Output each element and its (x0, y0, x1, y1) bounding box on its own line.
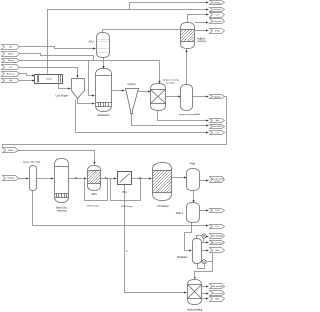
svg-text:Drying: Drying (46, 79, 51, 81)
svg-text:Exhaust: Exhaust (214, 8, 222, 11)
wire cyclone out to scrubber (138, 91, 151, 93)
wire dryer drain to lock hopper (59, 83, 71, 89)
wire hydrocracker to diesel flag 2 (202, 293, 209, 295)
wire filter drain to purge flag (33, 191, 209, 226)
output flag exhaust (210, 8, 225, 12)
wire branch to Exhaust flag (130, 9, 209, 11)
svg-text:Water: Water (8, 149, 14, 152)
vessel FT reactor (153, 163, 172, 201)
output flag flue gas (210, 19, 225, 24)
svg-text:CO₂: CO₂ (215, 15, 219, 17)
output flag wax 2 (210, 297, 225, 302)
wire cyclone drain to tar flag (132, 113, 209, 126)
svg-text:Syngas filter GAC: Syngas filter GAC (23, 161, 41, 164)
wire condenser downcomer (203, 239, 205, 243)
vessel syngas cleaning AGR (181, 85, 193, 111)
wire flue gas line (195, 22, 209, 24)
svg-text:ASU: ASU (89, 41, 94, 44)
svg-text:Flash 2: Flash 2 (176, 213, 184, 215)
wire AGR out to syngas flag (193, 96, 209, 98)
svg-text:Distillation: Distillation (177, 256, 188, 259)
output flag jet fuel 1 (210, 234, 225, 239)
input flag water to WGS (3, 148, 19, 153)
wire Water flag joining steam line (20, 54, 94, 61)
hatch WGS (88, 171, 101, 184)
wire reboiler loop (198, 264, 205, 269)
condenser pump (202, 234, 206, 238)
wire syngas recycle loop (3, 97, 227, 148)
wire scrubber drain to waste flag (158, 111, 209, 121)
wire distillation to wax flag (202, 250, 209, 252)
svg-text:CO₂: CO₂ (215, 226, 219, 228)
svg-text:Biomass: Biomass (7, 74, 15, 76)
svg-text:Steam CH₄: Steam CH₄ (56, 207, 67, 210)
output flag wax 1 (210, 248, 225, 253)
svg-text:Jet fuel/Np: Jet fuel/Np (212, 285, 223, 288)
svg-text:LPG: LPG (215, 210, 220, 212)
svg-text:Syngas cleaning AGR: Syngas cleaning AGR (179, 113, 201, 116)
output flag ash (210, 119, 225, 123)
svg-text:Steam: Steam (8, 59, 14, 62)
wire PSA hydrogen to hydrocracker (125, 185, 187, 293)
svg-text:Hydrocracking: Hydrocracking (187, 309, 203, 312)
wire gasifier out to cyclone (112, 90, 125, 92)
wire FT out to flash (172, 177, 187, 179)
vessel gasifier (96, 69, 112, 112)
svg-text:WGS Purge: WGS Purge (121, 205, 133, 208)
output flag syngas (210, 95, 225, 99)
vessel distillation column (193, 239, 202, 264)
svg-text:Tar & Ash: Tar & Ash (213, 125, 223, 128)
svg-text:PSA: PSA (122, 191, 127, 194)
svg-text:Cyclone: Cyclone (128, 84, 137, 86)
internals scrubber X (151, 90, 166, 104)
input flag air to ASU (2, 45, 20, 50)
wire reboiler to hydrocracker (195, 251, 213, 279)
svg-text:syngas: syngas (214, 181, 221, 183)
svg-text:WGS: WGS (91, 194, 97, 196)
svg-text:Sulphur: Sulphur (197, 37, 205, 40)
svg-text:scrubber: scrubber (166, 81, 175, 84)
svg-text:Syngas: Syngas (7, 178, 14, 180)
wire PSA out to FT reactor (132, 178, 152, 180)
svg-text:FT Reactor: FT Reactor (157, 205, 169, 208)
vessel flash 1 (187, 169, 200, 191)
wire hydrocracker to wax flag 2 (202, 298, 209, 300)
svg-text:Sulfur: Sulfur (215, 31, 221, 33)
internals hydrocracker X (188, 285, 202, 299)
svg-text:H₂: H₂ (126, 250, 128, 252)
svg-text:Syngas cleaning: Syngas cleaning (163, 80, 180, 82)
wire distillation top to condenser (197, 236, 202, 239)
output flag diesel 2 (210, 291, 225, 296)
svg-text:Lock Hopper: Lock Hopper (56, 94, 69, 97)
wire WGS purge loop 1 (85, 179, 108, 201)
wire flash 2 bottoms to distillation (185, 223, 192, 251)
svg-text:Nitrogen: Nitrogen (213, 1, 222, 4)
output flag unconverted syngas (210, 177, 225, 183)
output flag purge CO2 (210, 225, 225, 229)
arrow after PSA (139, 177, 141, 179)
wire filter to reformer (37, 178, 54, 180)
wire flash overhead to unconverted syngas flag (200, 180, 209, 182)
vessel ASU column (97, 33, 110, 58)
vessel steam reformer (55, 159, 69, 203)
wire syngas flag to filter (19, 178, 29, 180)
wire scrubber out to AGR (166, 96, 181, 98)
input flag air to dryer (2, 79, 20, 83)
wire Steam flag to scrubber top (20, 61, 160, 84)
wire condenser to jet fuel flag (207, 236, 209, 238)
arrow into hydrocracker top (194, 277, 196, 279)
reboiler pump (202, 260, 206, 264)
output flag diesel 1 (210, 241, 225, 245)
wire WGS out to PSA (101, 178, 117, 180)
svg-text:Diesel fuel: Diesel fuel (213, 242, 224, 244)
wire sulphur recovery to sulfur flag (195, 30, 209, 32)
wire ASU bottom O2 to gasifier top (103, 58, 105, 69)
wire AGR top to sulphur recovery bottom (186, 50, 188, 85)
input flag syngas (3, 176, 19, 181)
wire sulphur recovery top to CO2 flag (188, 15, 209, 23)
output flag CO2 bottom (210, 131, 225, 135)
output flag CO2 top (210, 13, 225, 18)
arrow on WGS outlet (105, 177, 107, 179)
heat exchanger PSA (118, 172, 132, 185)
output flag sulfur (210, 29, 225, 34)
vessel drying drum (35, 75, 63, 84)
wire water flag to WGS top (19, 151, 95, 165)
wire ASU top to sulphur recovery (103, 30, 181, 33)
wire CO2 flag to lock hopper top (20, 68, 78, 78)
svg-text:Gasification: Gasification (97, 114, 110, 117)
svg-text:Water: Water (8, 53, 14, 56)
vessel flash 2 (187, 203, 200, 223)
vessel lock hopper (72, 79, 85, 99)
input flag CO2 (2, 65, 20, 70)
input flag steam (2, 59, 20, 63)
svg-text:Air: Air (9, 79, 12, 82)
hatch FT reactor (153, 171, 172, 193)
wire steam branch to gasifier (89, 61, 95, 96)
vessel cyclone (126, 89, 139, 114)
svg-text:WGS Purge: WGS Purge (87, 205, 99, 208)
vessel WGS reactor (88, 166, 101, 191)
vessel syngas scrubber (151, 84, 166, 111)
output flag tar and ash (210, 125, 225, 129)
wire flash bottoms to flash 2 (193, 191, 195, 203)
wire WGS purge loop 2 (111, 179, 141, 201)
svg-text:CO₂: CO₂ (9, 67, 13, 69)
wire Biomass flag to dryer (20, 74, 35, 76)
wire lock hopper stem to gasifier (78, 99, 95, 104)
svg-text:Flue gas: Flue gas (213, 21, 221, 23)
svg-text:recovery: recovery (197, 40, 207, 43)
svg-text:Flash: Flash (190, 164, 196, 166)
hatch sulphur recovery (181, 30, 195, 42)
svg-text:Syngas: Syngas (214, 96, 221, 98)
input flag biomass (2, 72, 20, 77)
output flag nitrogen (210, 1, 225, 5)
svg-text:reforming: reforming (57, 209, 67, 212)
output flag LPG (210, 209, 225, 213)
wire lock hopper drain to ash flag (76, 100, 209, 133)
wire flash 2 overhead to LPG flag (200, 210, 209, 212)
wire Air flag to ASU (20, 47, 96, 49)
svg-text:Air: Air (9, 46, 12, 49)
wire reformer to WGS (69, 178, 87, 180)
arrow on reformer outlet (75, 177, 77, 179)
wire dryer exhaust to Nitrogen flag (48, 3, 209, 74)
wire Air flag to dryer (20, 80, 35, 82)
vessel hydrocracker (188, 280, 202, 305)
svg-text:Jet fuel/Np: Jet fuel/Np (212, 235, 223, 238)
vessel sulphur recovery (181, 23, 195, 49)
wire distillation to diesel flag (202, 242, 209, 244)
svg-text:CO₂: CO₂ (215, 132, 219, 134)
wire hydrocracker to jet fuel flag 2 (202, 286, 209, 288)
vessel syngas filter (30, 166, 37, 191)
output flag jet fuel 2 (210, 284, 225, 289)
input flag water (2, 52, 20, 57)
svg-text:Diesel fuel: Diesel fuel (213, 293, 224, 295)
